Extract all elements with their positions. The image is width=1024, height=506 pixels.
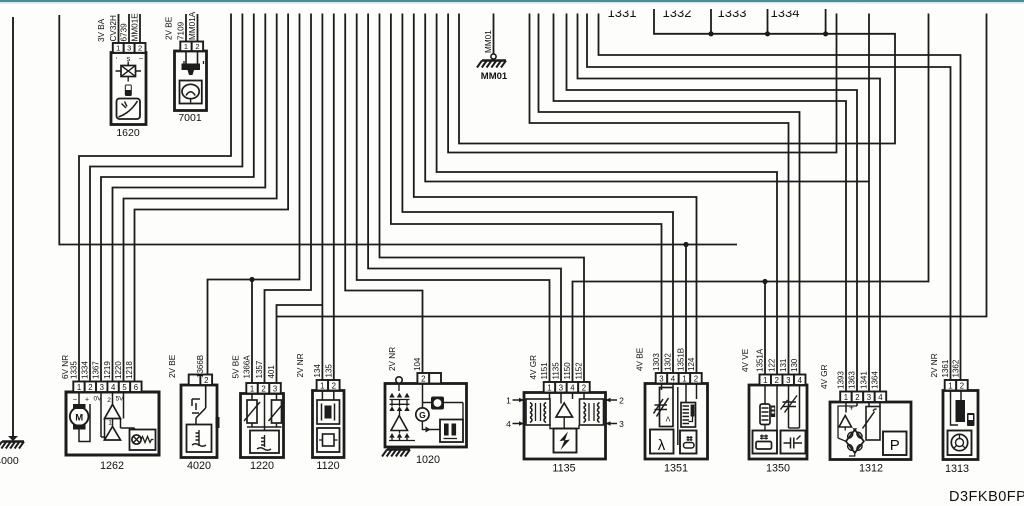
svg-text:3: 3 xyxy=(559,383,563,392)
svg-text:3: 3 xyxy=(786,376,790,385)
thermal switch 4020 xyxy=(168,354,220,472)
relay unit 1350 xyxy=(741,348,807,474)
svg-text:7001: 7001 xyxy=(178,112,202,124)
svg-text:5V BE: 5V BE xyxy=(232,355,241,379)
svg-text:135: 135 xyxy=(324,364,333,378)
svg-text:1: 1 xyxy=(948,381,952,390)
wire 1219 (1262 pin 4) xyxy=(113,14,266,382)
svg-text:2: 2 xyxy=(582,383,586,392)
svg-text:2: 2 xyxy=(261,384,265,393)
svg-text:2: 2 xyxy=(775,376,779,385)
svg-text:2: 2 xyxy=(107,397,111,404)
svg-text:1220: 1220 xyxy=(114,361,123,379)
svg-text:Λ: Λ xyxy=(666,417,671,424)
svg-text:1335: 1335 xyxy=(70,361,79,379)
svg-text:1351B: 1351B xyxy=(677,348,686,371)
svg-text:1135: 1135 xyxy=(552,362,561,380)
svg-text:1367: 1367 xyxy=(92,361,101,379)
wire long net 1351B main xyxy=(59,15,737,247)
svg-text:2V NR: 2V NR xyxy=(930,353,939,377)
wire 1335 (1262 pin 1) xyxy=(79,14,231,382)
svg-text:2: 2 xyxy=(855,393,859,402)
wire 1367 (1262 pin 3) xyxy=(101,14,254,382)
svg-text:1: 1 xyxy=(184,42,188,51)
svg-text:104: 104 xyxy=(413,357,422,371)
svg-text:1302: 1302 xyxy=(664,353,673,371)
gauge unit 1620 xyxy=(97,13,146,139)
wire 1220 (1262 pin 5) xyxy=(124,14,277,382)
svg-text:1120: 1120 xyxy=(316,460,339,472)
wire 1393 (1312 pin1) xyxy=(554,14,847,392)
wire 1150 (1135 pin3) xyxy=(368,14,561,383)
wire 1364 (1312 pin4) xyxy=(578,14,881,392)
svg-text:1362: 1362 xyxy=(952,359,961,377)
svg-text:1366A: 1366A xyxy=(243,355,252,379)
svg-text:1: 1 xyxy=(77,383,81,392)
svg-text:2: 2 xyxy=(138,44,142,53)
svg-text:MM01: MM01 xyxy=(481,71,508,82)
svg-text:1152: 1152 xyxy=(575,362,584,380)
svg-text:1313: 1313 xyxy=(945,463,969,475)
svg-text:130: 130 xyxy=(790,358,799,372)
wire 1366B/1366A (4020 pin2, 1220 pin1) xyxy=(208,14,300,384)
wire long net 1351B branch xyxy=(277,14,987,317)
svg-text:1341: 1341 xyxy=(860,371,869,389)
svg-text:1312: 1312 xyxy=(859,463,883,475)
svg-text:M: M xyxy=(75,413,83,424)
gauge 7001 xyxy=(165,11,207,124)
svg-text:1220: 1220 xyxy=(250,460,274,472)
svg-text:4: 4 xyxy=(111,383,116,392)
wire 1341 (1312 pin3) xyxy=(425,14,869,392)
svg-text:3: 3 xyxy=(867,393,871,402)
svg-text:4: 4 xyxy=(671,374,676,383)
svg-text:1219: 1219 xyxy=(103,361,112,379)
svg-text:1351: 1351 xyxy=(664,463,688,475)
svg-text:MM01E: MM01E xyxy=(131,13,140,42)
svg-text:1351A: 1351A xyxy=(756,348,765,372)
svg-text:4V BE: 4V BE xyxy=(636,347,645,371)
svg-text:4V GR: 4V GR xyxy=(820,364,829,389)
svg-text:1: 1 xyxy=(108,420,112,427)
wire 131 (1350 pin3) xyxy=(530,14,789,375)
svg-text:1218: 1218 xyxy=(125,361,134,379)
wire 1152/1351A (1135 pin4, 1350 pin1) xyxy=(573,14,929,383)
svg-text:3: 3 xyxy=(273,384,277,393)
svg-text:1363: 1363 xyxy=(848,371,857,389)
svg-text:1: 1 xyxy=(547,383,551,392)
wire 302 (1351 pin4) xyxy=(402,14,673,374)
svg-text:P: P xyxy=(890,437,900,454)
wire 401 (1220 pin3) xyxy=(277,305,323,383)
svg-text:1: 1 xyxy=(250,384,254,393)
svg-text:1350: 1350 xyxy=(766,463,790,475)
sensor 1120 xyxy=(296,353,344,472)
svg-text:2V NR: 2V NR xyxy=(296,353,305,377)
svg-text:4V GR: 4V GR xyxy=(529,355,538,380)
wire 1361 (1313 pin1) xyxy=(587,14,951,381)
svg-text:3: 3 xyxy=(100,383,104,392)
wire 1151 (1135 pin1) xyxy=(357,14,550,383)
svg-text:MM01: MM01 xyxy=(484,30,493,53)
svg-text:1: 1 xyxy=(682,374,686,383)
svg-text:124: 124 xyxy=(687,357,696,371)
svg-text:2V BE: 2V BE xyxy=(165,16,174,40)
svg-text:4: 4 xyxy=(798,376,803,385)
wire stubs 7001 xyxy=(186,14,198,42)
sensor 1220 xyxy=(232,355,285,472)
svg-text:–: – xyxy=(73,397,77,404)
svg-text:D3FKB0FP: D3FKB0FP xyxy=(949,489,1024,505)
svg-text:1135: 1135 xyxy=(552,463,575,475)
svg-text:2: 2 xyxy=(88,383,92,392)
svg-text:CV32H: CV32H xyxy=(109,15,118,41)
svg-text:122: 122 xyxy=(768,358,777,372)
svg-text:2: 2 xyxy=(619,396,624,406)
svg-text:MM01A: MM01A xyxy=(188,11,197,40)
motor/gauge unit 1262 xyxy=(61,355,159,472)
svg-text:7109: 7109 xyxy=(177,21,186,40)
wire 104 (1020 pin2) xyxy=(345,14,422,374)
control unit 1312 xyxy=(820,364,911,474)
svg-text:·: · xyxy=(115,53,118,63)
wire 122 (1350 pin2) xyxy=(437,14,777,375)
wire 135 (1120 pin2) xyxy=(333,14,335,391)
svg-text:λ: λ xyxy=(658,437,666,454)
pump unit 1313 xyxy=(930,353,978,475)
wire 1135 (1135 pin2) xyxy=(380,14,585,383)
svg-text:1303: 1303 xyxy=(652,353,661,371)
wire bus 1332-1334 xyxy=(459,9,895,144)
svg-text:2: 2 xyxy=(332,381,336,390)
svg-text:1151: 1151 xyxy=(540,362,549,380)
svg-text:2V NR: 2V NR xyxy=(388,347,397,371)
svg-text:1620: 1620 xyxy=(116,127,140,139)
wire 1353 feeder (loop to top) xyxy=(448,14,836,153)
svg-text:G: G xyxy=(419,410,426,420)
svg-text:2: 2 xyxy=(195,42,199,51)
svg-text:2: 2 xyxy=(421,374,425,383)
svg-text:3: 3 xyxy=(659,374,663,383)
svg-text:1: 1 xyxy=(506,396,511,406)
ignition module 1135 xyxy=(506,355,624,475)
svg-text:1: 1 xyxy=(116,44,120,53)
svg-text:6: 6 xyxy=(134,383,138,392)
wire 130 (1350 pin4) xyxy=(539,14,800,375)
svg-text:1020: 1020 xyxy=(416,454,440,466)
svg-text:5: 5 xyxy=(122,383,127,392)
svg-text:1: 1 xyxy=(844,393,848,402)
svg-text:4: 4 xyxy=(878,393,883,402)
svg-text:4: 4 xyxy=(506,419,511,429)
svg-text:4020: 4020 xyxy=(187,460,211,472)
wire 1357 (1220 pin2) xyxy=(265,14,312,384)
svg-text:4V VE: 4V VE xyxy=(741,348,750,372)
svg-text:1364: 1364 xyxy=(871,371,880,389)
wire 1218 (1262 pin 6) xyxy=(135,14,289,382)
svg-text:401: 401 xyxy=(267,365,276,379)
alternator 1020 xyxy=(382,347,467,466)
svg-text:4000: 4000 xyxy=(0,455,19,467)
wire 1363 (1312 pin2) xyxy=(567,14,858,392)
svg-text:1150: 1150 xyxy=(563,362,572,380)
svg-text:6739: 6739 xyxy=(120,23,129,42)
svg-text:2V BE: 2V BE xyxy=(168,354,177,378)
svg-text:+: + xyxy=(849,404,854,413)
wire 1362 (1313 pin2) xyxy=(599,14,961,381)
svg-text:1357: 1357 xyxy=(255,360,264,378)
svg-text:3: 3 xyxy=(127,44,131,53)
svg-text:1: 1 xyxy=(763,376,767,385)
ground MM01 (top) xyxy=(477,14,508,83)
wire 124 (1351 pin2) xyxy=(414,14,697,374)
wire 134 (1120 pin1) xyxy=(321,14,323,391)
svg-text:134: 134 xyxy=(313,364,322,378)
svg-text:2: 2 xyxy=(694,374,698,383)
svg-text:1393: 1393 xyxy=(837,371,846,389)
wire stubs 1620 xyxy=(119,14,141,44)
teal page top border xyxy=(0,0,1024,2)
svg-text:2: 2 xyxy=(960,381,964,390)
svg-text:131: 131 xyxy=(779,358,788,372)
wire 1351B (1351 pin1) xyxy=(685,245,687,374)
ground 4000 (left) xyxy=(0,17,24,467)
svg-text:+: + xyxy=(85,397,89,404)
wire 1334 (1262 pin 2) xyxy=(90,14,242,382)
lambda sensor 1351 xyxy=(636,347,708,474)
svg-text:4: 4 xyxy=(570,383,575,392)
svg-text:1366B: 1366B xyxy=(196,355,205,378)
svg-text:1262: 1262 xyxy=(100,460,124,472)
svg-text:3V BA: 3V BA xyxy=(97,18,106,42)
svg-text:1361: 1361 xyxy=(941,359,950,377)
svg-text:1: 1 xyxy=(320,381,324,390)
svg-text:1334: 1334 xyxy=(81,361,90,379)
svg-text:3: 3 xyxy=(619,419,624,429)
wire 303 (1351 pin3) xyxy=(391,14,662,374)
